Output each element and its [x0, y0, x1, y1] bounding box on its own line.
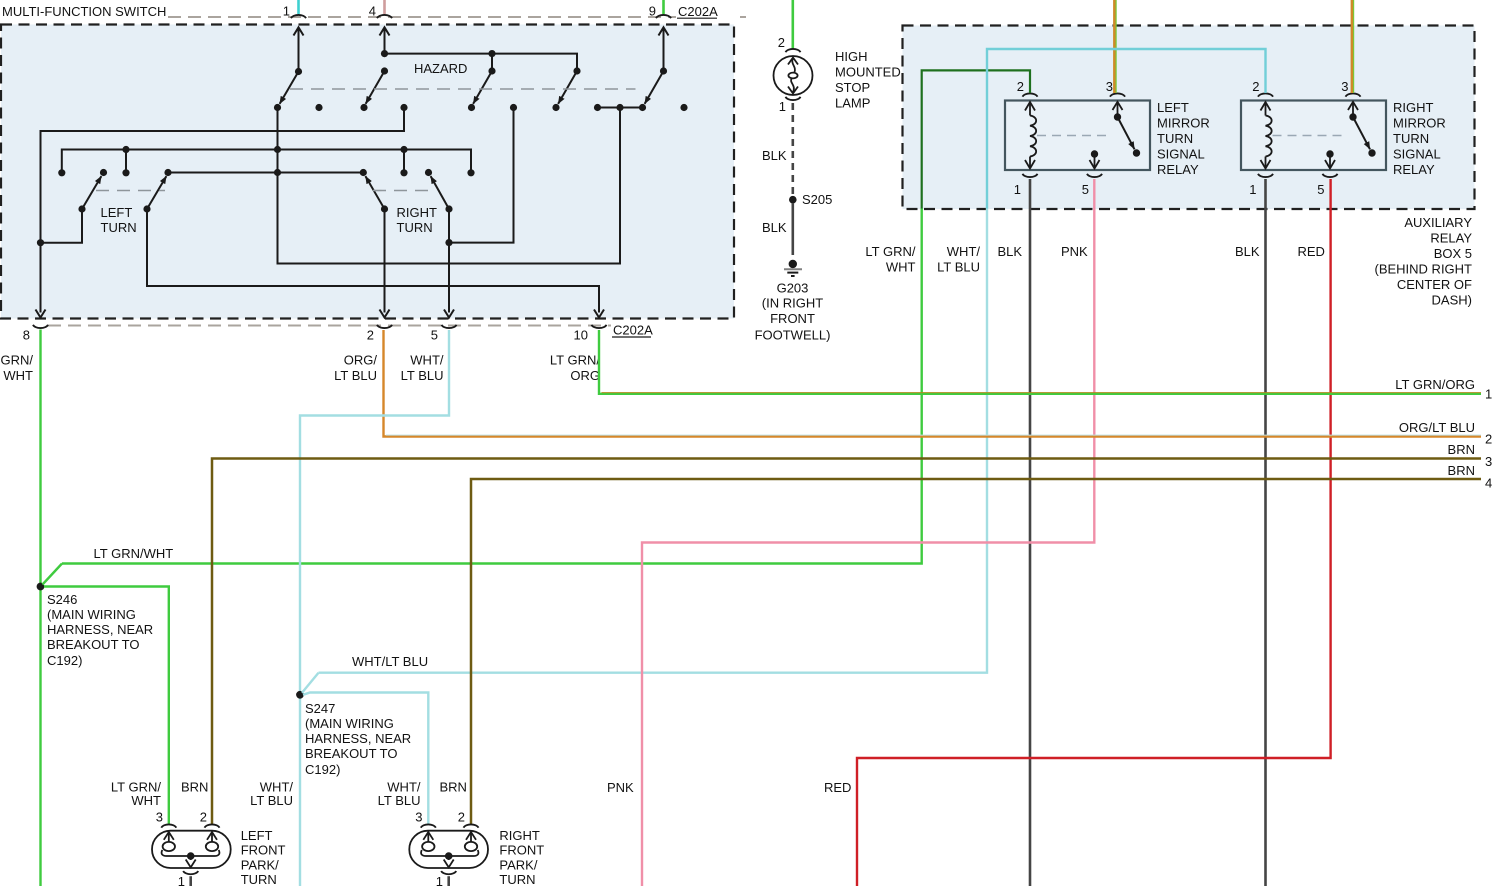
rowB dot x126	[122, 169, 129, 176]
svg-text:LT BLU: LT BLU	[334, 368, 377, 383]
svg-text:ORG/: ORG/	[344, 353, 378, 368]
wire row1 bus 597-642	[598, 107, 643, 109]
C202A bottom connector line	[48, 325, 611, 327]
svg-text:HIGH: HIGH	[835, 49, 868, 64]
BLK wire to ground	[791, 203, 794, 255]
svg-text:WHT/: WHT/	[410, 353, 444, 368]
hazard blade pivot dot b2	[381, 67, 388, 74]
wire WHT/LT BLU from pin 5	[300, 330, 449, 886]
hazard blade b4	[558, 71, 577, 104]
right turn blade 2	[431, 176, 449, 209]
wire WHT/LT BLU feed to right relay pin 2	[987, 49, 1266, 209]
wire ORG/LT GRN to left relay pin 3	[1114, 0, 1116, 93]
rowB dot x277	[274, 169, 281, 176]
svg-text:FRONT: FRONT	[770, 311, 815, 326]
switch pin 9 arrow	[659, 27, 669, 71]
hazard bus wire	[385, 54, 578, 71]
LT GRN/WHT lamp label	[111, 780, 161, 809]
svg-text:BREAKOUT TO: BREAKOUT TO	[47, 637, 139, 652]
hazard blade b2	[366, 71, 385, 104]
svg-text:2: 2	[1485, 432, 1492, 447]
left lamp ground wire	[189, 876, 192, 886]
switch pin 1 blade pivot dot	[295, 68, 302, 75]
junction dot 449,242	[445, 239, 452, 246]
switch pin 1 hazard blade	[280, 72, 299, 104]
svg-text:3: 3	[1341, 79, 1348, 94]
rowB dot x471	[467, 169, 474, 176]
wire 513 link to pin5 drop	[449, 108, 514, 243]
left turn blade 1 pivot dot	[78, 205, 85, 212]
svg-text:5: 5	[1082, 182, 1089, 197]
svg-text:5: 5	[431, 328, 438, 343]
bottom pin 2 connector arc	[377, 325, 392, 328]
top pin 1 wire stub WHT/LT BLU	[297, 0, 300, 14]
rowB dot x404	[400, 169, 407, 176]
svg-text:BOX 5: BOX 5	[1434, 246, 1472, 261]
wire BLK from left relay pin 1	[1029, 179, 1032, 886]
svg-text:TURN: TURN	[1393, 131, 1429, 146]
svg-text:PARK/: PARK/	[499, 857, 537, 872]
rail2 stub x404	[403, 150, 405, 173]
splice S246 dot	[37, 583, 45, 591]
right relay pin 5 connector arc	[1323, 174, 1338, 177]
WHT/LT BLU right lamp label	[378, 780, 421, 809]
pin 2 arrow head	[380, 310, 390, 318]
contact dot row1 x620	[616, 104, 623, 111]
svg-text:S205: S205	[802, 192, 832, 207]
svg-text:BREAKOUT TO: BREAKOUT TO	[305, 746, 397, 761]
wire LT GRN/ORG from pin 10	[599, 330, 1481, 394]
svg-text:MOUNTED: MOUNTED	[835, 65, 901, 80]
svg-text:RED: RED	[1298, 244, 1325, 259]
svg-text:2: 2	[200, 810, 207, 825]
left mirror relay box	[1005, 101, 1150, 171]
right relay pin 3 connector arc	[1346, 93, 1361, 96]
right lamp pin 1 connector arc	[441, 871, 456, 874]
left relay linkage dashed	[1037, 135, 1111, 137]
svg-text:RIGHT: RIGHT	[397, 205, 438, 220]
svg-text:WHT/: WHT/	[947, 244, 981, 259]
svg-text:MIRROR: MIRROR	[1393, 116, 1446, 131]
svg-text:GRN/: GRN/	[1, 353, 34, 368]
svg-text:FRONT: FRONT	[499, 843, 544, 858]
rowB dot x428	[425, 169, 432, 176]
svg-text:BRN: BRN	[1448, 463, 1475, 478]
contact dot row1 x556	[552, 104, 559, 111]
svg-text:10: 10	[574, 328, 588, 343]
svg-text:1: 1	[1014, 182, 1021, 197]
right lamp pin 2 connector arc	[464, 824, 479, 827]
svg-text:RIGHT: RIGHT	[499, 828, 540, 843]
svg-text:TURN: TURN	[101, 220, 137, 235]
svg-text:RED: RED	[824, 780, 851, 795]
wire 404 to rail1 to pin8 drop	[41, 108, 405, 313]
wire BRN 4 to right lamp pin 2	[471, 479, 1481, 824]
svg-text:C192): C192)	[305, 762, 340, 777]
right front park/turn lamp body	[409, 831, 488, 868]
svg-text:STOP: STOP	[835, 80, 870, 95]
rail2 dot x277	[274, 146, 281, 153]
stop lamp pin 2 connector arc	[786, 49, 801, 52]
hazard blade pivot dot b5	[660, 67, 667, 74]
svg-text:2: 2	[778, 35, 785, 50]
svg-text:9: 9	[649, 4, 656, 19]
hazard linkage dashed line	[290, 88, 636, 90]
stop lamp feed wire LT GRN	[791, 0, 794, 49]
LEFT TURN label	[101, 205, 137, 235]
right lamp pin 3 connector arc	[421, 824, 436, 827]
svg-text:BLK: BLK	[1235, 244, 1260, 259]
svg-text:2: 2	[458, 810, 465, 825]
S247 splice label	[305, 701, 411, 777]
svg-text:1: 1	[779, 99, 786, 114]
svg-text:AUXILIARY: AUXILIARY	[1404, 215, 1472, 230]
hazard blade b3	[473, 71, 492, 104]
rail2 dot x404	[400, 146, 407, 153]
LT GRN/WHT wire name below box	[865, 244, 915, 275]
svg-text:2: 2	[1017, 79, 1024, 94]
svg-text:CENTER OF: CENTER OF	[1397, 277, 1472, 292]
auxiliary relay box 5	[903, 26, 1475, 210]
svg-text:LEFT: LEFT	[101, 205, 133, 220]
wire LT GRN/WHT branch diagonal	[43, 564, 63, 585]
svg-text:LT BLU: LT BLU	[937, 260, 980, 275]
svg-text:8: 8	[23, 328, 30, 343]
svg-text:PNK: PNK	[607, 780, 634, 795]
left relay pin 2 connector arc	[1023, 93, 1038, 96]
rail2 stub x126	[125, 150, 127, 173]
right relay coil	[1261, 102, 1272, 169]
wire left blade1 to pin8 drop	[41, 209, 83, 243]
hazard blade b5	[645, 71, 664, 104]
left relay switch arm	[1113, 102, 1141, 157]
right relay pin 1 connector arc	[1258, 174, 1273, 177]
bottom pin 8 connector arc	[33, 325, 48, 328]
rowB dot x168	[164, 169, 171, 176]
svg-text:C202A: C202A	[678, 4, 718, 19]
contact dot row1 x364	[360, 104, 367, 111]
wire WHT/LT BLU branch diagonal to relay run	[302, 673, 319, 693]
ORG/LT BLU pin2 wire name	[334, 353, 377, 384]
svg-text:PNK: PNK	[1061, 244, 1088, 259]
top pin 4 wire stub	[383, 0, 386, 14]
svg-text:HARNESS, NEAR: HARNESS, NEAR	[305, 731, 411, 746]
left turn blade 1	[82, 176, 101, 209]
rowB dot x103	[100, 169, 107, 176]
left lamp center dot	[187, 852, 195, 860]
WHT/LT BLU passing label	[250, 780, 293, 809]
svg-text:RELAY: RELAY	[1430, 231, 1472, 246]
svg-text:RELAY: RELAY	[1157, 162, 1199, 177]
WHT/LT BLU pin5 wire name	[401, 353, 444, 384]
svg-text:PARK/: PARK/	[241, 857, 279, 872]
svg-text:(MAIN WIRING: (MAIN WIRING	[305, 716, 394, 731]
wire left blade2 to pin10	[147, 209, 599, 313]
svg-text:1: 1	[178, 874, 185, 886]
contact dot row1 x513	[510, 104, 517, 111]
svg-text:S246: S246	[47, 592, 77, 607]
left lamp pin 1 connector arc	[183, 871, 198, 874]
wire ORG/LT GRN to right relay pin 3	[1352, 0, 1354, 93]
GRN/WHT pin8 wire name	[1, 353, 34, 384]
wire chain 277 down right up to 620	[278, 108, 621, 264]
C202A top label	[677, 4, 718, 19]
svg-text:C202A: C202A	[613, 323, 653, 338]
wire WHT/LT BLU branch to right lamp pin 3	[303, 693, 428, 825]
left turn linkage dashed	[96, 190, 165, 192]
BLK dashed wire to S205	[791, 103, 794, 196]
contact dot row1 x404	[400, 104, 407, 111]
ground G203 symbol	[784, 260, 802, 276]
svg-text:(IN RIGHT: (IN RIGHT	[762, 296, 823, 311]
svg-text:WHT: WHT	[3, 368, 33, 383]
svg-text:LT GRN/: LT GRN/	[865, 244, 915, 259]
top pin 1 connector arc	[291, 15, 306, 18]
svg-text:1: 1	[1485, 387, 1492, 402]
contact dot row1 x642	[639, 104, 646, 111]
wire BRN 3 to left lamp pin 2	[212, 459, 1481, 825]
rail2 dot x126	[122, 146, 129, 153]
left relay pin 1 connector arc	[1023, 174, 1038, 177]
svg-text:WHT: WHT	[131, 793, 161, 808]
svg-text:4: 4	[1485, 476, 1492, 491]
splice S205 dot	[789, 196, 797, 204]
left relay pin 5 connector arc	[1087, 174, 1102, 177]
svg-text:LT GRN/: LT GRN/	[550, 353, 600, 368]
right lamp ground wire	[447, 876, 450, 886]
contact dot row1 x277	[274, 104, 281, 111]
left relay coil	[1025, 102, 1036, 169]
C202A top connector line	[168, 16, 746, 18]
right lamp center dot	[445, 852, 453, 860]
bottom pin 5 connector arc	[442, 325, 457, 328]
right relay pin5 contact	[1325, 150, 1335, 168]
svg-text:BRN: BRN	[1448, 442, 1475, 457]
contact dot row1 x319	[315, 104, 322, 111]
pin 10 arrow head	[594, 310, 604, 318]
top pin 9 connector arc	[656, 15, 671, 18]
svg-text:5: 5	[1317, 182, 1324, 197]
left front park/turn lamp body	[152, 831, 231, 868]
contact dot row1 x597	[594, 104, 601, 111]
LEFT FRONT PARK/TURN label	[241, 828, 286, 886]
left relay pin 3 connector arc	[1110, 93, 1125, 96]
hazard bus stub	[491, 54, 493, 71]
svg-text:1: 1	[436, 874, 443, 886]
stop lamp pin 1 connector arc	[786, 97, 801, 100]
wire right blade2 to pin5	[448, 209, 450, 313]
left lamp pin 3 connector arc	[161, 824, 176, 827]
wire RED from right relay pin 5	[857, 179, 1331, 886]
svg-text:SIGNAL: SIGNAL	[1157, 147, 1205, 162]
svg-text:1: 1	[1249, 182, 1256, 197]
svg-text:2: 2	[367, 328, 374, 343]
bottom pin 10 connector arc	[592, 325, 607, 328]
svg-text:3: 3	[1106, 79, 1113, 94]
svg-text:LEFT: LEFT	[1157, 100, 1189, 115]
svg-text:TURN: TURN	[241, 872, 277, 886]
svg-text:2: 2	[1252, 79, 1259, 94]
right mirror relay box	[1241, 101, 1386, 171]
svg-text:1: 1	[283, 4, 290, 19]
wire LT GRN/WHT vertical below box	[62, 209, 922, 564]
top pin 9 wire stub LT GRN	[662, 0, 665, 14]
svg-text:RIGHT: RIGHT	[1393, 100, 1434, 115]
svg-text:3: 3	[1485, 454, 1492, 469]
wire GRN/WHT from pin 8	[39, 330, 41, 886]
left relay pin5 contact	[1090, 150, 1100, 168]
svg-text:TURN: TURN	[499, 872, 535, 886]
right relay linkage dashed	[1273, 135, 1347, 137]
hazard bus junction dot pin4	[381, 50, 388, 57]
svg-text:LT BLU: LT BLU	[250, 793, 293, 808]
left lamp pin 2 connector arc	[205, 824, 220, 827]
svg-text:(BEHIND RIGHT: (BEHIND RIGHT	[1375, 262, 1473, 277]
left turn blade 2	[147, 176, 166, 209]
left turn blade 2 pivot dot	[143, 205, 150, 212]
hazard blade pivot dot b4	[573, 67, 580, 74]
svg-text:4: 4	[369, 4, 376, 19]
C202A bottom label	[612, 323, 653, 338]
multi-function switch box	[1, 25, 734, 319]
svg-text:ORG: ORG	[570, 368, 600, 383]
svg-text:ORG/LT BLU: ORG/LT BLU	[1399, 420, 1475, 435]
junction dot pin8 drop	[37, 239, 44, 246]
svg-text:LAMP: LAMP	[835, 96, 870, 111]
right turn blade 1 pivot dot	[381, 205, 388, 212]
wire DK GRN feed to left relay pin 2	[922, 70, 1030, 208]
svg-text:FRONT: FRONT	[241, 843, 286, 858]
pin 8 arrow head	[36, 310, 46, 318]
right turn blade 2 pivot dot	[445, 205, 452, 212]
wire ORG/LT BLU from pin 2	[384, 330, 1482, 437]
svg-text:DASH): DASH)	[1432, 293, 1472, 308]
svg-text:FOOTWELL): FOOTWELL)	[755, 328, 831, 343]
switch pin 4 arrow	[380, 27, 390, 54]
svg-text:WHT/LT BLU: WHT/LT BLU	[352, 654, 428, 669]
AUXILIARY RELAY BOX 5 label	[1375, 215, 1473, 308]
LT GRN/ORG pin10 wire name	[550, 353, 600, 384]
svg-text:HARNESS, NEAR: HARNESS, NEAR	[47, 622, 153, 637]
svg-text:(MAIN WIRING: (MAIN WIRING	[47, 607, 136, 622]
svg-text:LEFT: LEFT	[241, 828, 273, 843]
RIGHT TURN label	[397, 205, 438, 235]
wire PNK from left relay pin 5	[642, 179, 1094, 886]
svg-text:LT GRN/WHT: LT GRN/WHT	[94, 546, 174, 561]
rowB bus wire	[168, 172, 363, 174]
svg-text:C192): C192)	[47, 653, 82, 668]
svg-text:3: 3	[415, 810, 422, 825]
LEFT MIRROR TURN SIGNAL RELAY label	[1157, 100, 1210, 177]
wire GRN/WHT branch to left lamp pin 3	[44, 587, 169, 825]
high mounted stop lamp bulb	[774, 56, 813, 95]
rail2 wire	[62, 150, 471, 173]
svg-text:RELAY: RELAY	[1393, 162, 1435, 177]
svg-text:BLK: BLK	[998, 244, 1023, 259]
splice S247 dot	[296, 691, 304, 699]
svg-text:BLK: BLK	[762, 148, 787, 163]
svg-text:MULTI-FUNCTION SWITCH: MULTI-FUNCTION SWITCH	[2, 4, 166, 19]
svg-text:LT GRN/ORG: LT GRN/ORG	[1395, 377, 1475, 392]
wire WHT/LT BLU vertical below box	[319, 209, 988, 673]
wire right blade1 to pin2	[384, 209, 386, 313]
svg-text:BLK: BLK	[762, 220, 787, 235]
G203 label	[755, 281, 831, 343]
svg-text:HAZARD: HAZARD	[414, 61, 467, 76]
contact dot row1 x684	[680, 104, 687, 111]
svg-text:LT BLU: LT BLU	[378, 793, 421, 808]
hazard blade pivot dot b3	[488, 67, 495, 74]
contact dot row1 x471	[468, 104, 475, 111]
hazard bus junction dot mid	[488, 50, 495, 57]
rowB dot x363	[360, 169, 367, 176]
svg-text:G203: G203	[777, 281, 809, 296]
RIGHT MIRROR TURN SIGNAL RELAY label	[1393, 100, 1446, 177]
svg-text:TURN: TURN	[1157, 131, 1193, 146]
pin 5 arrow head	[444, 310, 454, 318]
svg-text:BRN: BRN	[440, 780, 467, 795]
right relay pin 2 connector arc	[1258, 93, 1273, 96]
HIGH MOUNTED STOP LAMP label	[835, 49, 901, 111]
right turn blade 1	[365, 176, 384, 209]
svg-text:LT BLU: LT BLU	[401, 368, 444, 383]
svg-text:BRN: BRN	[181, 780, 208, 795]
top pin 4 connector arc	[377, 15, 392, 18]
RIGHT FRONT PARK/TURN label	[499, 828, 544, 886]
rowB dot x61	[58, 169, 65, 176]
S246 splice label	[47, 592, 153, 668]
switch pin 1 arrow	[294, 27, 304, 72]
svg-text:MIRROR: MIRROR	[1157, 116, 1210, 131]
right relay switch arm	[1348, 102, 1376, 157]
right turn linkage dashed	[373, 190, 435, 192]
svg-text:SIGNAL: SIGNAL	[1393, 147, 1441, 162]
svg-text:TURN: TURN	[397, 220, 433, 235]
svg-text:WHT: WHT	[886, 260, 916, 275]
WHT/LT BLU wire name below box	[937, 244, 980, 275]
wire BLK from right relay pin 1	[1264, 179, 1267, 886]
svg-text:3: 3	[156, 810, 163, 825]
svg-text:S247: S247	[305, 701, 335, 716]
